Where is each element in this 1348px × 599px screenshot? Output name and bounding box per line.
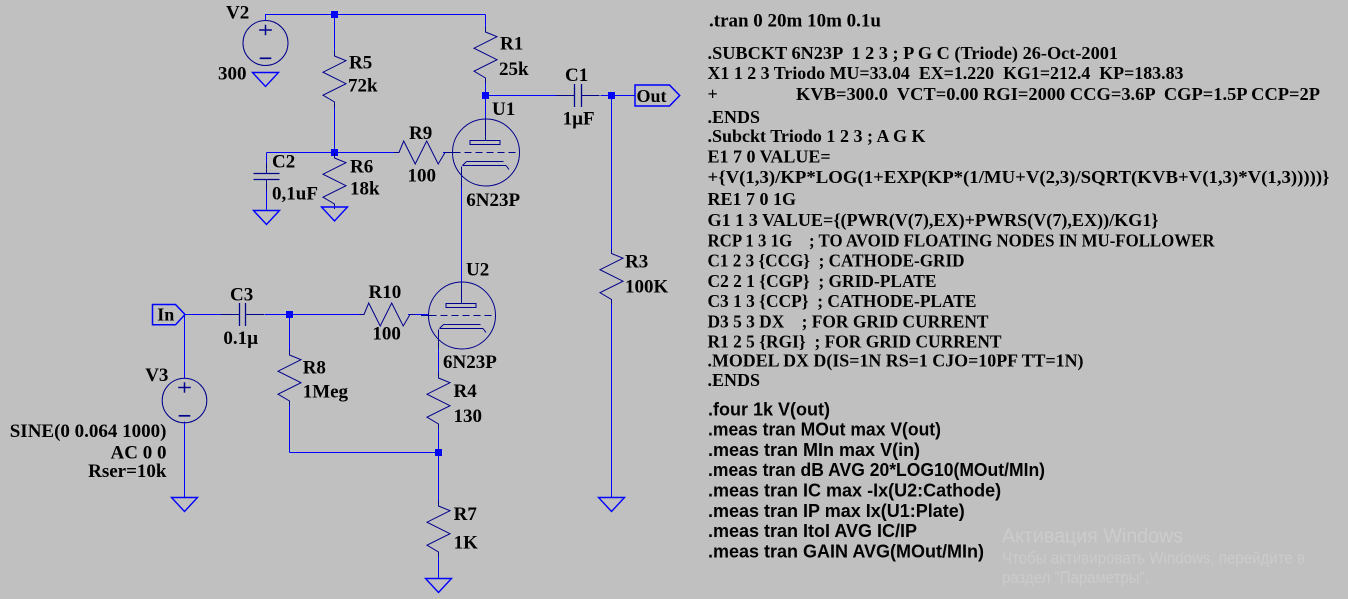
svg-text:.ENDS: .ENDS [708, 370, 761, 390]
voltage source V2 [243, 21, 288, 66]
capacitor C1 [556, 95, 575, 97]
svg-text:R1 2 5 {RGI} ; FOR GRID CURRE: R1 2 5 {RGI} ; FOR GRID CURRENT [708, 331, 1002, 351]
svg-text:+{V(1,3)/KP*LOG(1+EXP(KP*(1/MU: +{V(1,3)/KP*LOG(1+EXP(KP*(1/MU+V(2,3)/SQ… [708, 167, 1330, 188]
svg-text:Чтобы активировать Windows, пе: Чтобы активировать Windows, перейдите в [1002, 550, 1305, 568]
wire R8 to R4 junction [290, 452, 439, 454]
svg-text:R3: R3 [625, 252, 648, 273]
svg-text:E1 7 0 VALUE=: E1 7 0 VALUE= [708, 147, 831, 167]
svg-text:100: 100 [408, 165, 437, 186]
svg-text:RE1 7 0 1G: RE1 7 0 1G [708, 189, 797, 209]
svg-text:D3 5 3 DX ; FOR GRID CURREN: D3 5 3 DX ; FOR GRID CURRENT [708, 312, 989, 332]
svg-text:.meas tran MOut max V(out): .meas tran MOut max V(out) [708, 420, 941, 440]
wire U1 cathode to U2 plate [461, 186, 463, 283]
svg-text:C2: C2 [272, 151, 295, 172]
svg-text:.meas tran dB AVG 20*LOG10(MOu: .meas tran dB AVG 20*LOG10(MOut/MIn) [708, 460, 1045, 480]
svg-text:C3: C3 [230, 285, 253, 306]
svg-text:Out: Out [637, 86, 667, 106]
svg-text:R5: R5 [349, 53, 372, 74]
svg-text:U2: U2 [466, 260, 489, 281]
svg-text:.Subckt Triodo 1 2 3 ; A G K: .Subckt Triodo 1 2 3 ; A G K [708, 126, 926, 146]
svg-text:300: 300 [218, 64, 247, 85]
svg-text:R7: R7 [454, 504, 478, 525]
svg-text:V3: V3 [145, 365, 168, 386]
svg-text:C3 1 3 {CCP} ; CATHODE-PLATE: C3 1 3 {CCP} ; CATHODE-PLATE [708, 291, 977, 311]
wire R5 lower lead [334, 102, 336, 153]
svg-text:R9: R9 [409, 123, 432, 144]
capacitor C2 [266, 163, 268, 174]
svg-text:U1: U1 [492, 99, 515, 120]
svg-text:V2: V2 [226, 3, 249, 24]
svg-text:G1 1 3 VALUE={(PWR(V(7),EX)+PW: G1 1 3 VALUE={(PWR(V(7),EX)+PWRS(V(7),EX… [708, 210, 1159, 231]
wire R6 lower lead [334, 204, 336, 207]
svg-text:Rser=10k: Rser=10k [88, 461, 167, 482]
input port In [153, 305, 186, 325]
svg-text:C2 2 1 {CGP} ; GRID-PLATE: C2 2 1 {CGP} ; GRID-PLATE [708, 271, 937, 291]
wire C1 left [486, 95, 558, 97]
svg-text:0.1µ: 0.1µ [223, 328, 258, 349]
resistor R8 [278, 350, 301, 406]
svg-text:1µF: 1µF [563, 109, 595, 130]
ground below V3 [172, 498, 198, 512]
svg-text:6N23P: 6N23P [443, 352, 497, 373]
svg-text:C1 2 3 {CCG} ; CATHODE-GRID: C1 2 3 {CCG} ; CATHODE-GRID [708, 251, 965, 271]
svg-text:1K: 1K [454, 533, 479, 554]
svg-text:Активация Windows: Активация Windows [1002, 526, 1183, 548]
resistor R10 [359, 303, 415, 326]
svg-text:.ENDS: .ENDS [708, 107, 761, 127]
svg-text:.meas tran MIn max V(in): .meas tran MIn max V(in) [708, 440, 920, 460]
ground below R6 [322, 207, 348, 221]
wire U1 plate feed [485, 96, 487, 121]
resistor R7 [427, 501, 450, 557]
resistor R9 [394, 141, 450, 164]
node junction top rail / R5 [331, 11, 338, 18]
ground below V2 [253, 73, 279, 87]
resistor R4 [427, 373, 450, 429]
svg-text:.tran 0 20m 10m 0.1u: .tran 0 20m 10m 0.1u [709, 10, 881, 31]
voltage source V3 [162, 378, 207, 423]
wire R7 bottom lead [438, 552, 440, 579]
wire In port down to V3 [184, 315, 186, 379]
svg-text:6N23P: 6N23P [466, 190, 520, 211]
node junction C1/R3/Out [608, 92, 615, 99]
svg-text:+: + [708, 84, 718, 104]
svg-text:RCP 1 3 1G ; TO AVOID FLOAT: RCP 1 3 1G ; TO AVOID FLOATING NODES IN … [708, 230, 1216, 250]
svg-text:R10: R10 [369, 282, 402, 303]
ground below R7 [426, 579, 452, 593]
svg-text:.MODEL DX D(IS=1N RS=1 CJO=10P: .MODEL DX D(IS=1N RS=1 CJO=10PF TT=1N) [708, 351, 1084, 372]
wire R4 bottom lead [438, 424, 440, 453]
svg-text:R8: R8 [303, 357, 326, 378]
wire R1 bottom lead [485, 78, 487, 96]
svg-text:.meas tran IP max Ix(U1:Plate): .meas tran IP max Ix(U1:Plate) [708, 501, 965, 521]
svg-text:X1 1 2 3 Triodo MU=33.04 EX=1: X1 1 2 3 Triodo MU=33.04 EX=1.220 KG1=21… [708, 63, 1184, 83]
wire C3 to junction [265, 314, 290, 316]
wire U2 cathode to R4 [438, 349, 440, 378]
wire R7 top lead [438, 453, 440, 507]
svg-text:R1: R1 [500, 34, 523, 55]
node junction C3/R8/R10 [286, 311, 293, 318]
wire R9 right to U1 grid [443, 152, 453, 154]
svg-text:.meas tran ItoI AVG IC/IP: .meas tran ItoI AVG IC/IP [708, 521, 917, 541]
wire C2 bottom lead [266, 190, 268, 211]
svg-text:1Meg: 1Meg [303, 382, 349, 403]
svg-text:.four 1k V(out): .four 1k V(out) [708, 399, 830, 419]
ground below R3 [599, 498, 625, 512]
svg-text:18k: 18k [350, 179, 380, 200]
svg-text:R4: R4 [454, 381, 478, 402]
node junction R4/R7/R8 [435, 449, 442, 456]
ground below C2 [254, 211, 280, 225]
capacitor C3 [221, 314, 240, 316]
wire V3 to ground [184, 422, 186, 498]
node junction R5/R6/C2/R9 [331, 149, 338, 156]
svg-text:KVB=300.0 VCT=0.00 RGI=2000 C: KVB=300.0 VCT=0.00 RGI=2000 CCG=3.6P CGP… [796, 84, 1320, 104]
wire R3 top lead [611, 96, 613, 254]
wire C1 right [601, 95, 636, 97]
triode U1 [453, 119, 520, 186]
node junction R1/C1/plate [482, 92, 489, 99]
svg-text:In: In [157, 305, 174, 325]
resistor R5 [323, 51, 346, 107]
wire C2 top lead [266, 153, 268, 164]
wire R8 bottom lead [289, 401, 291, 453]
svg-text:25k: 25k [499, 59, 529, 80]
svg-text:130: 130 [454, 406, 483, 427]
svg-text:0,1uF: 0,1uF [272, 184, 318, 205]
svg-text:SINE(0 0.064 1000): SINE(0 0.064 1000) [10, 421, 167, 442]
wire In port to C3 [185, 314, 222, 316]
svg-text:.meas tran IC max -Ix(U2:Catho: .meas tran IC max -Ix(U2:Cathode) [708, 481, 1001, 501]
wire junction to R10 [290, 314, 363, 316]
wire mid rail C2 to R9 [267, 152, 335, 154]
svg-text:100K: 100K [625, 277, 669, 298]
svg-text:раздел "Параметры".: раздел "Параметры". [1002, 569, 1149, 587]
wire R1 top lead [485, 15, 487, 33]
wire top rail V2 to R1 [266, 14, 486, 16]
svg-text:.meas tran GAIN AVG(MOut/MIn): .meas tran GAIN AVG(MOut/MIn) [708, 541, 984, 561]
resistor R3 [600, 249, 623, 305]
svg-text:72k: 72k [348, 76, 378, 97]
svg-text:C1: C1 [565, 65, 588, 86]
wire R8 top lead [289, 315, 291, 354]
wire R3 bottom lead [611, 300, 613, 498]
output port Out [635, 85, 680, 106]
resistor R6 [323, 153, 346, 209]
svg-text:.SUBCKT 6N23P 1 2 3 ; P G C (: .SUBCKT 6N23P 1 2 3 ; P G C (Triode) 26-… [708, 43, 1119, 64]
svg-text:R6: R6 [350, 157, 373, 178]
wire R5 upper lead [334, 15, 336, 57]
resistor R1 [474, 27, 497, 83]
triode U2 [429, 282, 496, 349]
svg-text:100: 100 [372, 323, 401, 344]
wire R10 to U2 grid [408, 314, 429, 316]
